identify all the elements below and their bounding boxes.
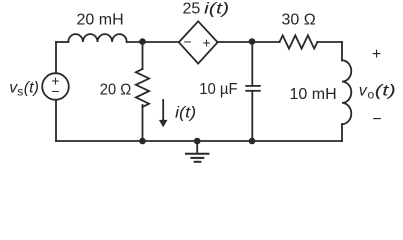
inductor L2 10 mH bbox=[342, 60, 351, 124]
wire right vertical top bbox=[341, 42, 343, 60]
wire top rail: resistor to right corner bbox=[317, 41, 342, 43]
svg-text:(t): (t) bbox=[375, 83, 396, 100]
svg-text:v: v bbox=[359, 83, 368, 100]
wire left vertical bottom (source to bottom rail) bbox=[55, 100, 57, 141]
ground bar 1 bbox=[186, 153, 208, 155]
wire capacitor branch top bbox=[251, 42, 253, 86]
wire top rail: diamond to node B bbox=[218, 41, 280, 43]
svg-text:(t): (t) bbox=[24, 80, 39, 97]
ground bar 2 bbox=[191, 157, 203, 159]
wire capacitor branch bottom bbox=[251, 91, 253, 141]
svg-text:−: − bbox=[51, 83, 59, 99]
junction dot bottom capacitor bbox=[249, 138, 256, 145]
resistor R1 20 ohm bbox=[136, 69, 149, 107]
svg-text:−: − bbox=[372, 111, 381, 128]
svg-text:−: − bbox=[184, 34, 192, 50]
junction dot bottom middle branch bbox=[139, 138, 146, 145]
svg-text:i(t): i(t) bbox=[204, 1, 229, 18]
ground stem bbox=[196, 141, 198, 154]
dependent source U1 diamond 25 i(t) bbox=[179, 21, 218, 63]
wire middle branch top bbox=[142, 42, 144, 69]
capacitor C1 plate top bbox=[246, 85, 260, 87]
svg-text:o: o bbox=[368, 88, 375, 102]
svg-text:30 Ω: 30 Ω bbox=[282, 12, 316, 29]
svg-text:s: s bbox=[17, 85, 23, 99]
junction dot ground node bbox=[194, 138, 201, 145]
capacitor C1 plate bottom bbox=[246, 90, 260, 92]
current arrow i(t) head bbox=[159, 120, 168, 127]
wire left vertical top (source to top rail) bbox=[55, 42, 57, 73]
voltage source V1 circle bbox=[42, 73, 69, 100]
svg-text:+: + bbox=[372, 46, 381, 63]
svg-text:20 mH: 20 mH bbox=[77, 11, 124, 28]
ground bar 3 bbox=[195, 161, 201, 163]
inductor L1 20 mH bbox=[68, 34, 126, 42]
wire top rail: corner to inductor bbox=[56, 41, 68, 43]
wire right vertical bottom bbox=[341, 124, 343, 141]
svg-text:25: 25 bbox=[183, 1, 201, 18]
wire middle branch bottom bbox=[142, 105, 144, 141]
svg-text:10 µF: 10 µF bbox=[199, 81, 238, 98]
wire top rail: inductor to node A bbox=[127, 41, 179, 43]
node A junction dot bbox=[139, 38, 146, 45]
svg-text:10 mH: 10 mH bbox=[290, 86, 337, 103]
svg-text:20 Ω: 20 Ω bbox=[100, 82, 131, 99]
svg-text:i(t): i(t) bbox=[175, 105, 196, 122]
node B junction dot bbox=[249, 38, 256, 45]
svg-text:+: + bbox=[203, 35, 211, 51]
resistor R2 30 ohm bbox=[280, 35, 318, 48]
wire bottom rail bbox=[56, 140, 342, 142]
current arrow i(t) shaft bbox=[162, 100, 164, 121]
